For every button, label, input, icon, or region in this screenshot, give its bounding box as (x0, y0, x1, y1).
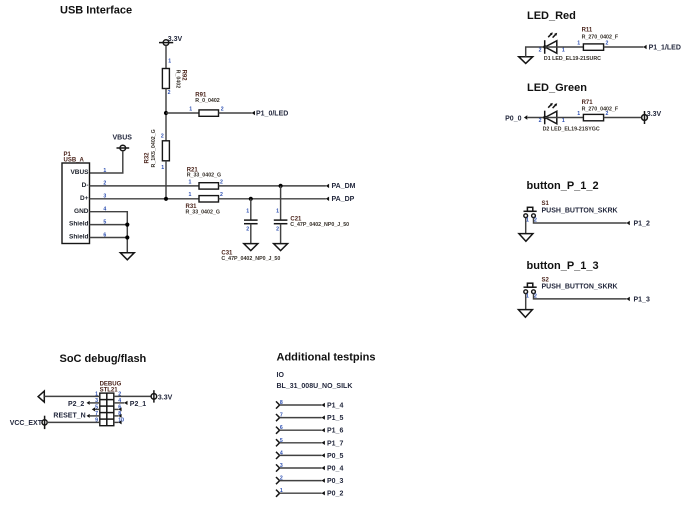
testpin 6 chevron (276, 427, 280, 434)
port P2_2 (68, 401, 90, 408)
wire row2 right (114, 402, 125, 404)
stub pin5 no-connect (92, 407, 100, 411)
svg-text:P0_2: P0_2 (327, 491, 343, 498)
svg-text:2: 2 (221, 106, 224, 112)
wire C31 up (250, 199, 252, 220)
switch S1 (524, 201, 618, 217)
wire C21 down (280, 224, 282, 244)
wire P0_0 to D2 (527, 117, 544, 119)
wire gnd to D1 (526, 47, 545, 57)
svg-text:1: 1 (189, 106, 192, 112)
junction C21 on D- (279, 184, 283, 188)
port P1_4 (322, 403, 344, 410)
svg-text:R32: R32 (144, 152, 150, 164)
svg-text:2: 2 (246, 227, 249, 233)
resistor R21 (187, 168, 221, 190)
wire 3.3V to R92 (165, 45, 167, 68)
svg-text:R_1K5_0402_G: R_1K5_0402_G (151, 129, 157, 167)
port P0_3 (322, 478, 344, 485)
wire VBUS to pin1 (90, 151, 123, 173)
svg-text:P1_0/LED: P1_0/LED (256, 110, 288, 117)
wire Shield pin5 (90, 224, 128, 226)
svg-text:Shield: Shield (69, 221, 89, 228)
svg-text:BL_31_008U_NO_SILK: BL_31_008U_NO_SILK (277, 383, 353, 390)
svg-text:IO: IO (277, 372, 285, 379)
wire R92 to node (165, 89, 167, 141)
wire R11 to port (604, 46, 644, 48)
wire C31 down (250, 224, 252, 244)
svg-text:PA_DM: PA_DM (332, 183, 356, 190)
wire R71 to 3.3V (604, 117, 642, 119)
resistor R71 (582, 100, 619, 121)
svg-text:R11: R11 (582, 28, 593, 34)
svg-text:1: 1 (168, 59, 171, 65)
port P2_1 (124, 401, 146, 408)
svg-text:P2_2: P2_2 (68, 401, 84, 408)
wire S1 to port (534, 218, 627, 223)
svg-text:Additional testpins: Additional testpins (277, 352, 376, 364)
testpin 1 chevron (276, 490, 280, 497)
wire R32 to D+ (165, 161, 167, 199)
port P1_1/LED (643, 44, 681, 51)
diode D2 LED (543, 103, 600, 132)
svg-text:P1_1/LED: P1_1/LED (649, 44, 681, 51)
svg-text:P1_6: P1_6 (327, 428, 343, 435)
svg-text:D1 LED_EL19-21SURC: D1 LED_EL19-21SURC (544, 56, 601, 62)
wire R91 to port (219, 112, 252, 114)
wire row5 left VCC_EXT (47, 421, 100, 423)
testpin 5 chevron (276, 439, 280, 446)
svg-text:2: 2 (168, 90, 171, 96)
port P0_5 (322, 453, 344, 460)
svg-text:SoC debug/flash: SoC debug/flash (60, 353, 147, 365)
svg-text:1: 1 (562, 118, 565, 124)
wire D1 to R11 (545, 46, 583, 48)
svg-text:R_33_0402_G: R_33_0402_G (187, 173, 221, 179)
resistor R92 (162, 69, 186, 89)
ground S1 (519, 234, 533, 242)
svg-text:R92: R92 (181, 70, 187, 82)
junction shield6 (125, 235, 129, 239)
port arrow left row1 (38, 391, 44, 402)
resistor R32 (144, 129, 169, 167)
svg-text:P1_3: P1_3 (634, 296, 650, 303)
svg-text:VBUS: VBUS (70, 169, 89, 176)
ground C31 (244, 244, 258, 251)
wire testpin 1 (280, 492, 322, 494)
wire S2 to port (534, 294, 627, 299)
port P1_7 (322, 440, 344, 447)
wire testpin 7 (280, 417, 322, 419)
testpin 3 chevron (276, 464, 280, 471)
port PA_DM (326, 183, 356, 190)
connector P1 USB_A (62, 152, 90, 244)
svg-text:S2: S2 (542, 277, 550, 283)
testpin 4 chevron (276, 452, 280, 459)
svg-text:1: 1 (276, 209, 279, 215)
header U DEBUG STL21 (100, 382, 122, 426)
port P1_5 (322, 415, 344, 422)
svg-text:Shield: Shield (69, 234, 89, 241)
svg-text:1: 1 (526, 294, 529, 300)
stub pin10 no-connect (114, 420, 122, 424)
ground S2 (518, 310, 532, 318)
power 3.3V debug (151, 390, 173, 402)
wire Shield pin6 (90, 237, 128, 239)
svg-text:S1: S1 (542, 201, 550, 207)
wire row1 right to 3.3V (114, 395, 151, 397)
svg-text:1: 1 (103, 168, 106, 174)
svg-text:P1_2: P1_2 (634, 221, 650, 228)
svg-text:P0_4: P0_4 (327, 466, 343, 473)
wire row2 left (90, 402, 100, 404)
svg-text:P0_3: P0_3 (327, 478, 343, 485)
wire testpin 5 (280, 442, 322, 444)
wire D2 to R71 (545, 117, 583, 119)
svg-text:VBUS: VBUS (113, 134, 133, 141)
wire D- net (90, 185, 200, 187)
svg-text:2: 2 (539, 47, 542, 53)
port P1_2 (626, 221, 650, 228)
wire R21 to PA_DM (219, 185, 326, 187)
svg-text:2: 2 (276, 227, 279, 233)
port P0_4 (322, 466, 344, 473)
svg-text:P1_7: P1_7 (327, 440, 343, 447)
svg-text:C_47P_0402_NP0_J_50: C_47P_0402_NP0_J_50 (290, 222, 349, 228)
wire row1 left (44, 395, 100, 397)
port RESET_N (53, 413, 89, 420)
svg-text:1: 1 (577, 40, 580, 46)
wire testpin 4 (280, 454, 322, 456)
diode D1 LED (543, 32, 601, 62)
svg-text:2: 2 (606, 111, 609, 117)
wire testpin 3 (280, 467, 322, 469)
svg-text:LED_Green: LED_Green (527, 82, 587, 94)
resistor R31 (186, 196, 220, 216)
svg-text:D-: D- (82, 182, 89, 189)
wire S1 to gnd (525, 218, 527, 234)
svg-text:D2 LED_EL19-21SYGC: D2 LED_EL19-21SYGC (543, 126, 600, 132)
port P0_2 (322, 491, 344, 498)
svg-text:RESET_N: RESET_N (53, 413, 85, 420)
svg-text:R71: R71 (582, 100, 594, 106)
svg-text:P1_4: P1_4 (327, 403, 343, 410)
svg-text:1: 1 (562, 47, 565, 53)
svg-text:P0_5: P0_5 (327, 453, 343, 460)
svg-text:3.3V: 3.3V (647, 111, 662, 118)
power VCC_EXT (10, 416, 47, 429)
power 3.3V green (642, 111, 662, 124)
svg-text:USB Interface: USB Interface (60, 5, 132, 17)
power 3.3V top (159, 36, 183, 46)
stub pin8 no-connect (114, 414, 122, 418)
power VBUS (113, 134, 133, 151)
wire GND pin4 (90, 212, 128, 252)
svg-text:R_0402: R_0402 (174, 70, 180, 89)
svg-text:3.3V: 3.3V (158, 394, 173, 401)
svg-text:2: 2 (606, 40, 609, 46)
svg-text:1: 1 (577, 111, 580, 117)
svg-text:D+: D+ (80, 195, 89, 202)
switch S2 (524, 277, 618, 293)
testpin 2 chevron (276, 477, 280, 484)
svg-text:1: 1 (246, 209, 249, 215)
svg-text:2: 2 (161, 134, 164, 140)
junction node R91 branch (164, 111, 168, 115)
junction shield5 (125, 223, 129, 227)
svg-text:VCC_EXT: VCC_EXT (10, 420, 43, 427)
wire node to R91 (166, 112, 199, 114)
svg-text:2: 2 (220, 192, 223, 198)
svg-text:2: 2 (220, 179, 223, 185)
wire R31 to PA_DP (219, 198, 326, 200)
junction C31 on D+ (249, 197, 253, 201)
ground C21 (274, 244, 288, 251)
svg-text:USB_A: USB_A (64, 158, 85, 164)
wire C21 up (280, 186, 282, 220)
svg-text:R_0_0402: R_0_0402 (195, 98, 220, 104)
port P1_0/LED (252, 110, 289, 117)
testpin 8 chevron (276, 401, 280, 408)
wire D+ net (90, 198, 200, 200)
ground USB (120, 253, 134, 260)
svg-text:1: 1 (526, 218, 529, 224)
svg-text:R_270_0402_F: R_270_0402_F (582, 35, 619, 41)
svg-text:R_270_0402_F: R_270_0402_F (582, 106, 619, 112)
svg-text:2: 2 (539, 118, 542, 124)
svg-text:C_47P_0402_NP0_J_50: C_47P_0402_NP0_J_50 (221, 256, 280, 262)
testpin 7 chevron (276, 414, 280, 421)
resistor R91 (195, 93, 220, 117)
svg-text:P0_0: P0_0 (505, 115, 521, 122)
wire testpin 2 (280, 480, 322, 482)
resistor R11 (582, 28, 619, 51)
wire S2 to gnd (525, 294, 527, 310)
svg-text:PA_DP: PA_DP (332, 196, 355, 203)
svg-text:PUSH_BUTTON_SKRK: PUSH_BUTTON_SKRK (542, 284, 618, 291)
capacitor C21 (274, 217, 349, 229)
wire testpin 8 (280, 404, 322, 406)
svg-text:button_P_1_2: button_P_1_2 (527, 180, 599, 192)
junction D+ at R32 (164, 197, 168, 201)
capacitor C31 (221, 220, 280, 262)
port P1_3 (626, 296, 650, 303)
wire testpin 6 (280, 429, 322, 431)
port P1_6 (322, 428, 344, 435)
svg-text:1: 1 (189, 192, 192, 198)
svg-text:1: 1 (161, 165, 164, 171)
svg-text:button_P_1_3: button_P_1_3 (527, 260, 599, 272)
svg-text:3.3V: 3.3V (168, 36, 183, 43)
svg-text:PUSH_BUTTON_SKRK: PUSH_BUTTON_SKRK (542, 207, 618, 214)
port PA_DP (326, 196, 355, 203)
svg-text:P1_5: P1_5 (327, 415, 343, 422)
stub pin6 no-connect (114, 407, 122, 411)
wire row4 left (90, 415, 100, 417)
port P0_0 (505, 115, 527, 122)
ground LED_Red (519, 57, 533, 64)
svg-text:1: 1 (189, 179, 192, 185)
svg-text:STL21: STL21 (100, 387, 119, 393)
svg-text:R_33_0402_G: R_33_0402_G (186, 209, 220, 215)
svg-text:GND: GND (74, 208, 89, 215)
svg-text:LED_Red: LED_Red (527, 10, 576, 22)
svg-text:P2_1: P2_1 (130, 401, 146, 408)
